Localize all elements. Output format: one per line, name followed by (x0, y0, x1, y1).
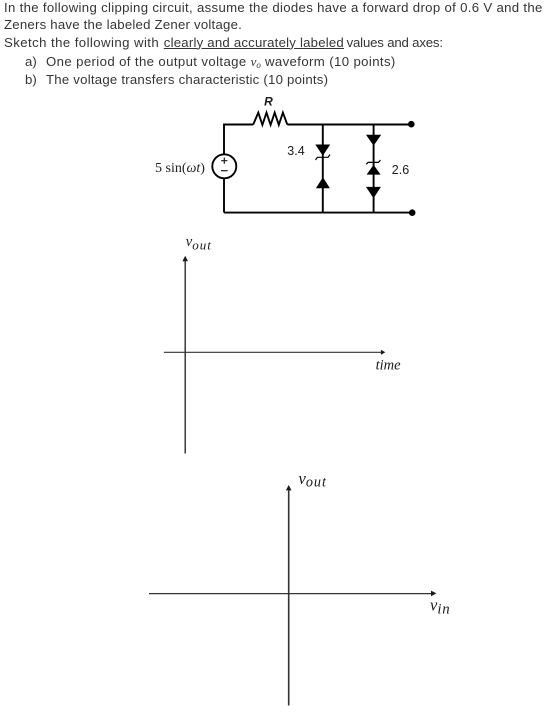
graph2 y-axis arrowhead (286, 485, 292, 490)
voltage source V1 (212, 154, 236, 178)
wire: bottom rail (224, 212, 412, 214)
wire: zener branch 2 vertical (373, 125, 375, 213)
node: output terminal (top right) (408, 121, 415, 128)
wire: top wire left segment (source top to resistor) (224, 125, 253, 154)
problem statement line 3 (4, 36, 159, 49)
zener diode D4 (2.6 V, cathode up) (366, 160, 380, 175)
wire: zener branch 1 vertical (322, 125, 324, 213)
list item b (25, 73, 37, 86)
zener diode D1 (3.4 V, cathode up) (315, 145, 330, 161)
graph2 x-axis (149, 593, 434, 595)
resistor R (253, 113, 287, 125)
svg-text:vout: vout (299, 469, 328, 491)
diode D5 (pointing down) (366, 187, 381, 198)
graph2 x-axis arrowhead (431, 591, 436, 597)
graph1 y-axis (184, 259, 186, 454)
svg-text:vin: vin (430, 596, 450, 618)
graph1 y-axis arrowhead (182, 256, 188, 261)
graph1 x-axis (164, 351, 382, 353)
node: output terminal (bottom right) (409, 209, 416, 216)
wire: top wire right segment (287, 124, 411, 126)
wire: source bottom to bottom rail (223, 178, 225, 213)
problem statement line 1 (4, 1, 543, 14)
svg-text:R: R (264, 94, 273, 108)
diode D2 (pointing up) (316, 177, 330, 188)
graph2 y-axis (288, 488, 290, 706)
diode D3 (pointing down) (366, 135, 381, 146)
svg-text:vout: vout (186, 234, 212, 252)
problem statement line 2 (4, 18, 242, 31)
graph1 x-axis arrowhead (381, 350, 385, 355)
svg-text:time: time (376, 358, 402, 374)
list item a (25, 55, 37, 68)
svg-text:2.6: 2.6 (392, 163, 409, 177)
svg-text:3.4: 3.4 (287, 144, 304, 158)
svg-text:5 sin(ωt): 5 sin(ωt) (155, 161, 205, 176)
